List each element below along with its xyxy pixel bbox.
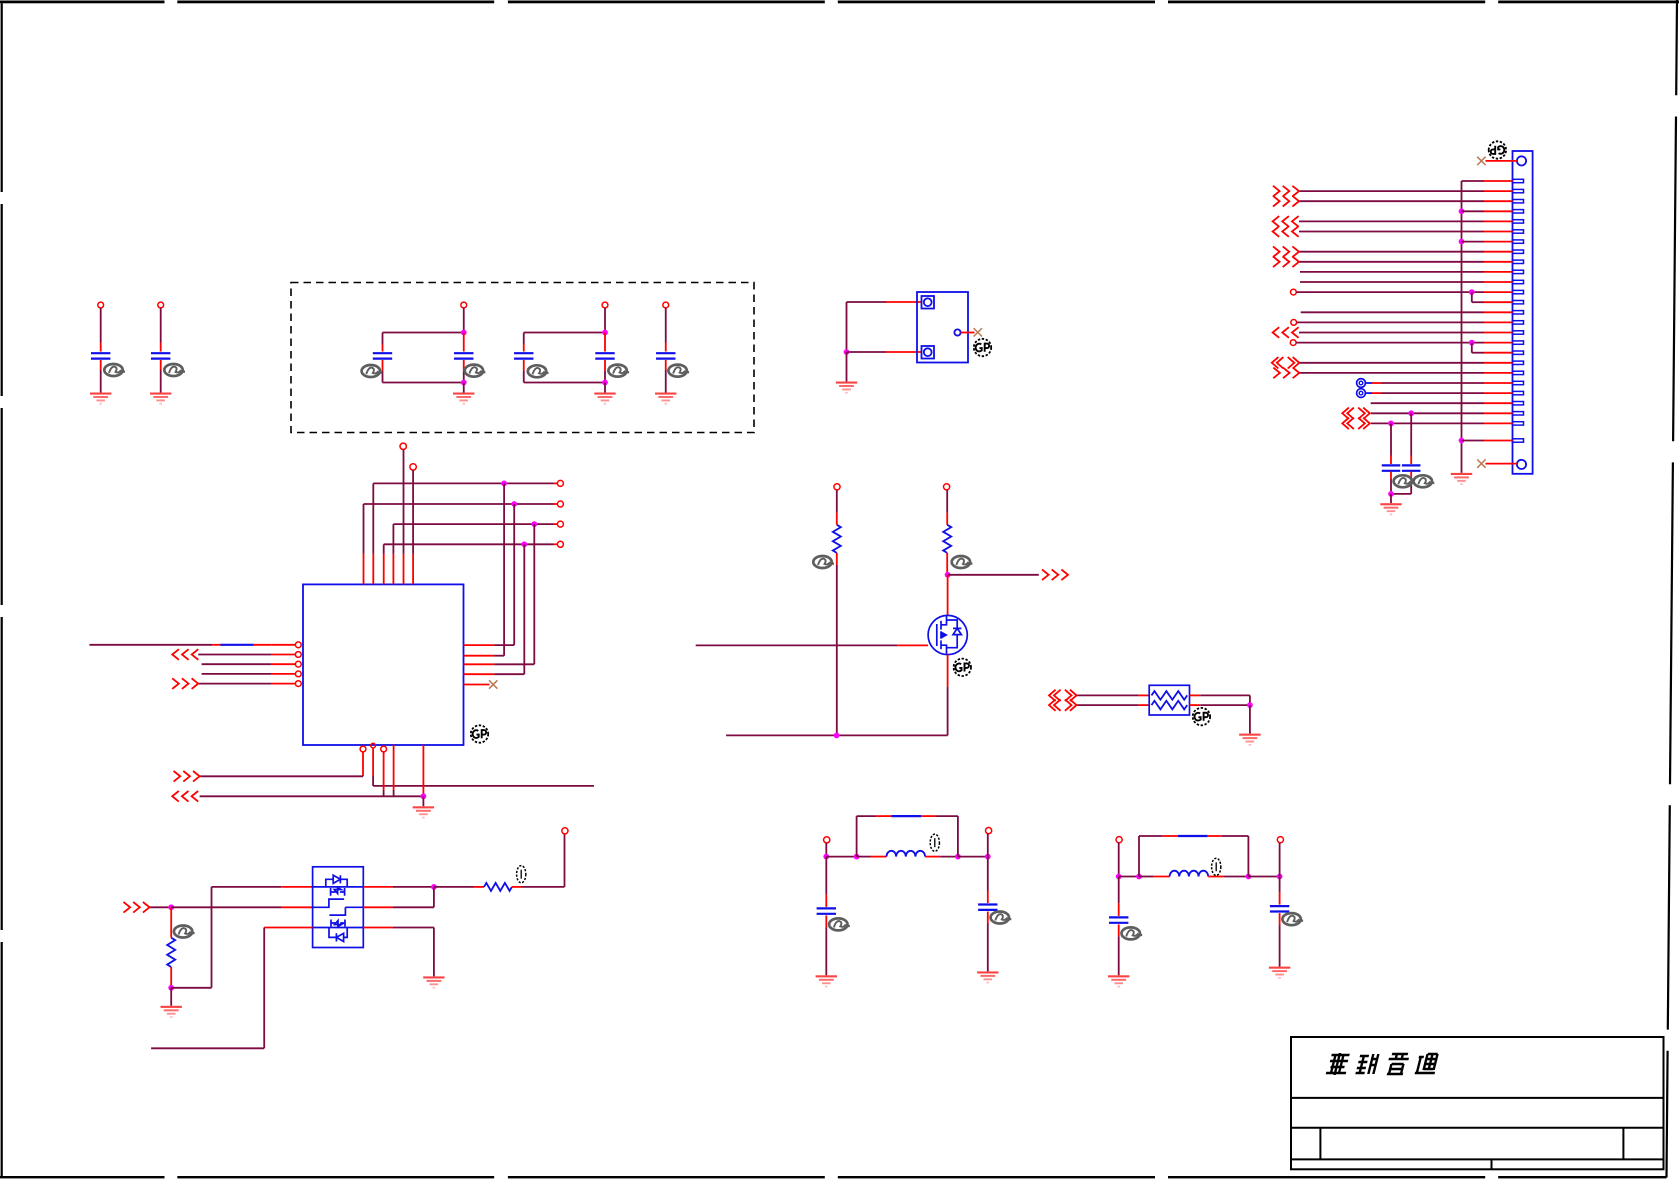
wire bbox=[100, 308, 102, 343]
wire bbox=[362, 752, 364, 776]
wire pin5 bbox=[1299, 220, 1484, 222]
wire bbox=[946, 490, 948, 513]
wire top row 3 bbox=[392, 524, 394, 554]
node R1 bottom bbox=[834, 733, 840, 739]
title block bbox=[1291, 1037, 1664, 1169]
wire to arrows bbox=[948, 574, 1039, 576]
node L2 out bbox=[1277, 874, 1283, 880]
wire dropper 2 bbox=[513, 504, 515, 645]
wire bypass loop bbox=[856, 816, 858, 857]
wire Q2 row3 right bbox=[363, 927, 392, 929]
value C11 bbox=[991, 912, 1012, 924]
connector J1 pins bbox=[1513, 179, 1524, 442]
node sw junction bbox=[844, 349, 850, 355]
ground C7 bbox=[655, 393, 676, 405]
wire FL1 out1 bbox=[1190, 694, 1201, 696]
port R1 top bbox=[834, 484, 840, 490]
wire pin11 bbox=[1300, 281, 1484, 283]
U1 left pin bubble bbox=[295, 642, 301, 648]
wire bbox=[604, 308, 606, 330]
wire pin21 bbox=[1365, 382, 1372, 384]
wire top row 2 bbox=[363, 504, 365, 554]
ground C13 bbox=[1269, 967, 1290, 979]
bus vertical wire bbox=[1461, 181, 1463, 473]
wire sw bottom bbox=[847, 351, 887, 353]
wire bbox=[946, 553, 948, 575]
capacitor C11 bbox=[978, 905, 997, 910]
dashed group box bbox=[291, 283, 754, 433]
value C9 bbox=[1414, 475, 1435, 487]
wire FL1 row1 bbox=[1077, 694, 1139, 696]
node R4 bottom bbox=[168, 985, 174, 991]
wire feedback bbox=[171, 987, 211, 989]
wire pin17 bbox=[1296, 342, 1484, 344]
port L1 in bbox=[824, 837, 830, 843]
value C7 bbox=[668, 365, 689, 377]
capacitor C1 bbox=[91, 353, 110, 358]
wire pin25 bbox=[1371, 422, 1484, 424]
node loop left bbox=[854, 854, 860, 860]
wire bbox=[160, 360, 162, 370]
value L1 bbox=[930, 834, 939, 851]
wire bbox=[412, 470, 414, 554]
ground C6 bbox=[594, 393, 615, 405]
wire FL1 out2 bbox=[1190, 704, 1201, 706]
wire pin12 bbox=[1296, 291, 1484, 293]
wire bbox=[463, 360, 465, 371]
wire U1 left row1 bbox=[89, 644, 212, 646]
wire R1 bottom long bbox=[836, 553, 838, 565]
U1 top pin stubs bbox=[363, 554, 365, 585]
stamp GP J1 bbox=[1489, 141, 1506, 158]
port top row 2 bbox=[557, 501, 563, 507]
wire long row bbox=[373, 785, 594, 787]
wire pin3 bbox=[1299, 200, 1484, 202]
node pin4 bbox=[1459, 208, 1465, 214]
port C6 top bbox=[602, 302, 608, 308]
port C4 top bbox=[461, 302, 467, 308]
node loop left bbox=[1136, 874, 1142, 880]
capacitor C9 bbox=[1402, 465, 1421, 470]
wire loop bottom bbox=[382, 360, 384, 371]
node pin24 bbox=[1408, 410, 1414, 416]
wire bottom row2 bbox=[200, 795, 424, 797]
wire bbox=[160, 308, 162, 343]
wire bbox=[1248, 876, 1279, 878]
port L2 in bbox=[1116, 837, 1122, 843]
wire U1 left row3 bbox=[202, 663, 272, 665]
capacitor C6 bbox=[595, 353, 614, 358]
port top row 4 bbox=[557, 541, 563, 547]
capacitor C8 bbox=[1382, 465, 1401, 470]
node Q2 out bbox=[431, 884, 437, 890]
page border top bbox=[0, 1, 165, 4]
node top row 2 bbox=[511, 501, 517, 507]
ground FL1 bbox=[1239, 734, 1260, 746]
node pin26 bbox=[1459, 438, 1465, 444]
wire pin6 bbox=[1299, 231, 1484, 233]
value C3 bbox=[362, 365, 383, 377]
node L2 in bbox=[1116, 874, 1122, 880]
U1 left pin bubble bbox=[295, 661, 301, 667]
port pin17 bbox=[1290, 340, 1296, 346]
no-connect X J1 top bbox=[1477, 157, 1485, 165]
wire to ground bbox=[846, 352, 848, 382]
node U1 gnd bbox=[421, 793, 427, 799]
wire bbox=[1279, 843, 1281, 877]
node loop right bbox=[1246, 874, 1252, 880]
stamp GP SW1 bbox=[974, 339, 991, 356]
value R4 bbox=[174, 926, 195, 938]
node FL1 bbox=[1247, 702, 1253, 708]
wire Q2 gate from arrows bbox=[150, 906, 172, 908]
wire pin22 bbox=[1365, 392, 1372, 394]
value R2 bbox=[952, 556, 973, 568]
wire Q1 source bbox=[947, 655, 949, 687]
ground Q2 bbox=[423, 976, 444, 988]
wire bottom horizontal bbox=[726, 734, 948, 736]
wire bbox=[1279, 913, 1281, 925]
transistor Q1 bbox=[928, 615, 967, 654]
U1 bottom pin2 bubble bbox=[371, 743, 376, 748]
port C1 top bbox=[98, 302, 104, 308]
wire sw left vertical bbox=[846, 302, 848, 352]
capacitor C7 bbox=[656, 353, 675, 358]
ground C1 bbox=[90, 393, 111, 405]
value C12 bbox=[1122, 927, 1143, 939]
port VCC1 bbox=[400, 443, 406, 449]
wire pin4 bbox=[393, 745, 395, 790]
node caps bbox=[1388, 491, 1394, 497]
value R3 bbox=[517, 866, 526, 883]
IC U1 bbox=[303, 584, 464, 745]
wire bbox=[170, 988, 172, 1006]
wire bbox=[987, 857, 989, 891]
wire pin9 bbox=[1299, 261, 1484, 263]
wire bbox=[987, 834, 989, 857]
wire cap C8 bbox=[1390, 423, 1392, 455]
ground C11 bbox=[977, 971, 998, 983]
U1 right pin5 stub bbox=[464, 684, 490, 686]
ground C2 bbox=[150, 393, 171, 405]
wire bbox=[170, 967, 172, 988]
wire bbox=[1486, 160, 1518, 162]
ground R4 bbox=[161, 1006, 182, 1018]
connector J1 mounting circle top bbox=[1517, 156, 1526, 165]
wire bbox=[1486, 463, 1518, 465]
port L1 out bbox=[986, 828, 992, 834]
wire Q1 drain bbox=[947, 575, 949, 616]
ground SW1 bbox=[836, 382, 857, 394]
value C10 bbox=[829, 918, 850, 930]
wire bbox=[1118, 924, 1120, 936]
wire cap C9 bbox=[1410, 413, 1412, 455]
node pin17 bbox=[1469, 340, 1475, 346]
wire bbox=[1390, 472, 1392, 480]
capacitor C2 bbox=[151, 353, 170, 358]
wire bbox=[1118, 843, 1120, 877]
U1 left pin bubble bbox=[295, 671, 301, 677]
wire loop top C3/C4 bbox=[382, 333, 384, 345]
wire sw top bbox=[847, 301, 887, 303]
wire pin24 bbox=[1371, 412, 1484, 414]
wire bbox=[1118, 877, 1120, 904]
value C5 bbox=[528, 365, 549, 377]
resistor R3 bbox=[484, 883, 512, 891]
wire pin5 bbox=[422, 745, 424, 796]
U1 bottom pin1 bubble bbox=[360, 746, 366, 752]
wire bbox=[665, 360, 667, 370]
wire Q1 gate bbox=[696, 644, 897, 646]
capacitor C3 bbox=[373, 353, 392, 358]
wire bbox=[403, 450, 405, 554]
wire U1 left row2 bbox=[198, 654, 272, 656]
value C8 bbox=[1394, 475, 1415, 487]
value C13 bbox=[1282, 913, 1303, 925]
wire pin2 bbox=[1299, 190, 1484, 192]
connector J1 mounting circle bottom bbox=[1517, 460, 1526, 469]
wire bypass loop bbox=[1138, 836, 1140, 877]
wire bbox=[463, 308, 465, 330]
wire U1 left row5 bbox=[198, 683, 272, 685]
wire pin8 bbox=[1299, 251, 1484, 253]
wire bbox=[1249, 705, 1251, 734]
wire pin2 bbox=[372, 748, 374, 776]
wire top row 4 bbox=[383, 544, 385, 554]
wire bbox=[665, 308, 667, 343]
port top row 3 bbox=[557, 521, 563, 527]
wire gate bbox=[171, 906, 281, 908]
resistor R4 bbox=[170, 907, 172, 937]
node L1 in bbox=[823, 854, 829, 860]
wire bbox=[100, 360, 102, 370]
node top row 3 bbox=[531, 521, 537, 527]
wire FL1 row2 bbox=[1077, 704, 1139, 706]
node top row 4 bbox=[521, 541, 527, 547]
connector pin stubs bbox=[1484, 180, 1513, 182]
node loop right bbox=[955, 854, 961, 860]
wire U1 left row4 bbox=[202, 673, 272, 675]
wire sw pin3 bbox=[961, 332, 975, 334]
node pin7 bbox=[1459, 239, 1465, 245]
wire pin10 bbox=[1300, 271, 1484, 273]
transistor block Q2 bbox=[313, 867, 364, 948]
port C2 top bbox=[158, 302, 164, 308]
wire bbox=[825, 843, 827, 857]
wire row bbox=[826, 856, 856, 858]
ground U1 bbox=[413, 806, 434, 818]
value C1 bbox=[104, 364, 125, 376]
wire Q2 row2 right bbox=[363, 906, 392, 908]
wire pin13 branch bbox=[1471, 292, 1473, 302]
U1 bottom pin3 bubble bbox=[381, 746, 387, 752]
terminal pin21 bbox=[1357, 379, 1366, 388]
wire loop top C5/C6 bbox=[523, 333, 525, 345]
wire bbox=[825, 857, 827, 895]
ground J1 bus bbox=[1451, 473, 1472, 485]
wire pin15 bbox=[1297, 321, 1484, 323]
node pin12 bbox=[1469, 289, 1475, 295]
connector J1 body bbox=[1513, 151, 1533, 474]
value L2 bbox=[1212, 858, 1221, 875]
wire bbox=[825, 915, 827, 927]
page border bottom bbox=[0, 1176, 165, 1178]
switch SW1 bbox=[917, 292, 968, 363]
wire dropper 1 bbox=[503, 483, 505, 655]
port L2 out bbox=[1277, 837, 1283, 843]
stamp GP U1 bbox=[471, 725, 488, 742]
wire pin3 bbox=[383, 752, 385, 790]
capacitor C13 bbox=[1270, 906, 1289, 911]
capacitor C5 bbox=[514, 353, 533, 358]
wire dropper 3 bbox=[533, 524, 535, 664]
node R4 top bbox=[168, 904, 174, 910]
port R2 top bbox=[944, 484, 950, 490]
wire pin16 bbox=[1299, 332, 1484, 334]
wire row bbox=[1119, 876, 1139, 878]
inductor L2 bbox=[1170, 871, 1209, 877]
stamp GP Q1 bbox=[954, 659, 971, 676]
resistor R2 bbox=[943, 525, 951, 553]
wire bottom row1 bbox=[200, 775, 363, 777]
node top row 1 bbox=[501, 481, 507, 487]
value R1 bbox=[813, 556, 834, 568]
ground C12 bbox=[1108, 975, 1129, 987]
wire pin23 bbox=[1371, 402, 1484, 404]
port top row 1 bbox=[557, 480, 563, 486]
stamp GP FL1 bbox=[1193, 708, 1210, 725]
capacitor C4 bbox=[454, 353, 473, 358]
wire top row 1 bbox=[372, 483, 374, 554]
port pin15 bbox=[1291, 320, 1297, 326]
wire bbox=[1208, 876, 1223, 878]
company logo text bbox=[1326, 1053, 1440, 1075]
ground C4 bbox=[453, 393, 474, 405]
U1 left pin bubble bbox=[295, 681, 301, 687]
node pin25 bbox=[1388, 421, 1394, 427]
wire Q2 row3 left bbox=[264, 927, 312, 929]
wire bbox=[958, 856, 988, 858]
no-connect X J1 bottom bbox=[1477, 459, 1485, 467]
wire bbox=[836, 490, 838, 513]
wire pin20 bbox=[1299, 372, 1484, 374]
page border right bbox=[1675, 0, 1678, 95]
wire bbox=[1410, 472, 1412, 480]
wire loop bottom bbox=[523, 360, 525, 371]
terminal pin22 bbox=[1357, 389, 1366, 398]
port R3 out bbox=[562, 828, 568, 834]
value C2 bbox=[164, 364, 185, 376]
U1 left pin bubble bbox=[295, 652, 301, 658]
wire bbox=[925, 856, 940, 858]
node L1 out bbox=[985, 854, 991, 860]
wire bbox=[512, 886, 521, 888]
wire bbox=[604, 360, 606, 371]
wire pin18 branch bbox=[1471, 343, 1473, 353]
ground C8/C9 bbox=[1380, 503, 1401, 515]
page border left bbox=[1, 3, 3, 192]
value C6 bbox=[608, 365, 629, 377]
wire dropper 4 bbox=[523, 544, 525, 674]
node R2/Q1 bbox=[945, 572, 951, 578]
no-connect X sw bbox=[974, 328, 982, 336]
wire bbox=[1390, 494, 1392, 503]
resistor R1 bbox=[833, 525, 841, 553]
wire bbox=[422, 796, 424, 806]
wire Q2 row1 right / resistor R3 bbox=[363, 886, 392, 888]
wire bbox=[1279, 877, 1281, 893]
value C4 bbox=[465, 365, 486, 377]
inductor L1 bbox=[887, 851, 926, 857]
port C7 top bbox=[663, 302, 669, 308]
ground C10 bbox=[816, 975, 837, 987]
wire bbox=[987, 912, 989, 924]
wire pin14 bbox=[1301, 311, 1484, 313]
wire pin19 bbox=[1299, 362, 1484, 364]
capacitor C10 bbox=[817, 908, 836, 913]
wire pin1 bbox=[1462, 180, 1485, 182]
port pin12 bbox=[1291, 289, 1297, 295]
filter FL1 bbox=[1149, 685, 1189, 715]
capacitor C12 bbox=[1109, 917, 1128, 922]
port VCC2 bbox=[410, 464, 416, 470]
